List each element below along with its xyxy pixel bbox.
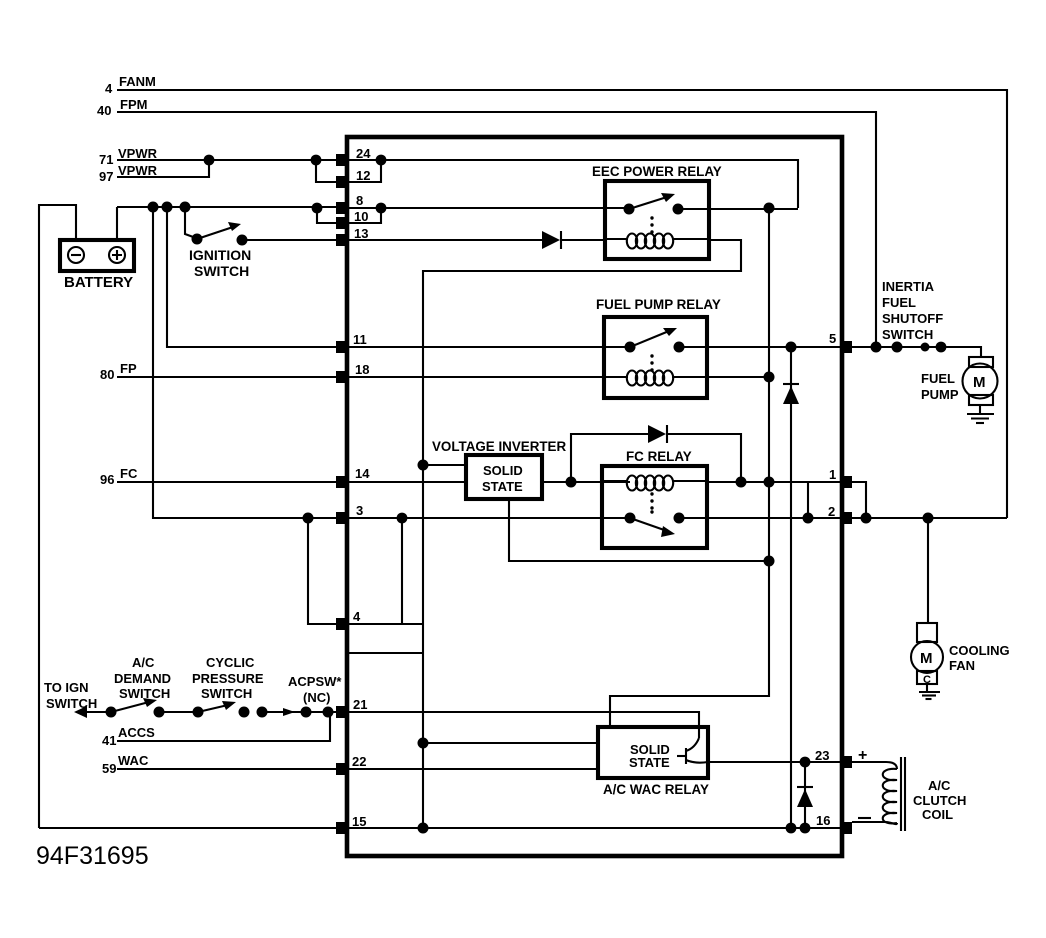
wire battery negative to left edge down to pin 15 row bbox=[39, 205, 76, 828]
svg-text:SWITCH: SWITCH bbox=[194, 263, 249, 279]
junction inverter bottom to VPWR vertical bbox=[764, 556, 775, 567]
svg-text:12: 12 bbox=[356, 168, 370, 183]
wire FC row to pin 14 bbox=[117, 481, 340, 483]
junction battery feed b bbox=[162, 202, 173, 213]
PCM main box bbox=[347, 137, 842, 856]
wire to cyclic pressure switch bbox=[159, 711, 198, 713]
wire diode bypass loop over FC coil bbox=[571, 434, 648, 482]
svg-text:(NC): (NC) bbox=[303, 690, 330, 705]
junction left loop bbox=[803, 513, 814, 524]
svg-text:PUMP: PUMP bbox=[921, 387, 959, 402]
svg-text:SWITCH: SWITCH bbox=[882, 327, 933, 342]
svg-text:FUEL: FUEL bbox=[882, 295, 916, 310]
wire battery vertical to pin 11 row bbox=[167, 207, 340, 347]
svg-text:CLUTCH: CLUTCH bbox=[913, 793, 966, 808]
wire FANM from pin 4 to right edge down to fan row bbox=[117, 90, 1007, 518]
svg-text:CYCLIC: CYCLIC bbox=[206, 655, 255, 670]
wire feed into WAC relay bbox=[423, 742, 598, 744]
junction pin 3 row inside bbox=[397, 513, 408, 524]
node TO IGN SWITCH bbox=[44, 680, 111, 718]
pin 12 terminal bbox=[336, 176, 348, 188]
wire pin 14 row into voltage inverter bbox=[349, 481, 466, 483]
junction diode CR2 bottom bbox=[800, 823, 811, 834]
svg-text:FUEL: FUEL bbox=[921, 371, 955, 386]
A/C demand switch S3 bbox=[106, 655, 172, 718]
svg-text:24: 24 bbox=[356, 146, 371, 161]
pin 24 terminal bbox=[336, 154, 348, 166]
wire pin 5 to fuel pump bbox=[852, 347, 981, 357]
svg-text:M: M bbox=[920, 650, 933, 667]
svg-text:A/C: A/C bbox=[928, 778, 951, 793]
wire pin 4 row to EEC return vertical bbox=[348, 623, 423, 625]
junction CR1 bottom bbox=[786, 823, 797, 834]
svg-text:ACPSW*: ACPSW* bbox=[288, 674, 342, 689]
pin 1 terminal bbox=[840, 476, 852, 488]
svg-text:96: 96 bbox=[100, 472, 114, 487]
diode CR4 on bypass loop bbox=[648, 425, 741, 482]
svg-text:WAC: WAC bbox=[118, 753, 149, 768]
wire pin 22 row into WAC relay bbox=[349, 768, 598, 770]
wire inside: pin 24 row to relay output corner bbox=[349, 160, 798, 208]
wire FC coil return to pin 1 bbox=[707, 481, 852, 483]
wire inverter bottom output bbox=[509, 499, 769, 561]
junction battery feed a bbox=[148, 202, 159, 213]
wire pin 3 to pin 4 link b bbox=[401, 518, 403, 624]
transistor Q1 in WAC relay bbox=[677, 738, 708, 764]
wire inside: pin 13 row to diode bbox=[349, 239, 542, 241]
cyclic pressure switch S4 bbox=[192, 655, 268, 718]
pin 15 terminal bbox=[336, 822, 348, 834]
svg-text:13: 13 bbox=[354, 226, 368, 241]
svg-text:STATE: STATE bbox=[629, 755, 670, 770]
svg-text:22: 22 bbox=[352, 754, 366, 769]
junction pin 24 inside bbox=[376, 155, 387, 166]
wire FP relay output to pin 5 bbox=[679, 346, 840, 348]
svg-text:A/C: A/C bbox=[132, 655, 155, 670]
wire ACCS row up to pin 21 row bbox=[117, 712, 330, 741]
wire ignition switch to pin 13 bbox=[242, 239, 340, 241]
pin 4 terminal bbox=[336, 618, 348, 630]
svg-text:COIL: COIL bbox=[922, 807, 953, 822]
svg-text:EEC POWER RELAY: EEC POWER RELAY bbox=[592, 164, 722, 179]
junction FC coil row a bbox=[736, 477, 747, 488]
svg-text:SOLID: SOLID bbox=[483, 463, 523, 478]
pin 22 terminal bbox=[336, 763, 348, 775]
svg-text:FPM: FPM bbox=[120, 97, 147, 112]
battery B1 bbox=[60, 240, 134, 291]
junction battery feed c bbox=[180, 202, 191, 213]
pin 21 terminal bbox=[336, 706, 348, 718]
voltage inverter U1 bbox=[432, 439, 566, 499]
svg-text:5: 5 bbox=[829, 331, 836, 346]
wire pin 11 row into FP relay contact bbox=[349, 346, 630, 348]
diode CR1 fuel pump feed bbox=[783, 347, 799, 828]
svg-text:11: 11 bbox=[353, 332, 367, 347]
junction pin 3 row outside bbox=[303, 513, 314, 524]
inertia fuel shutoff switch S2 bbox=[882, 279, 946, 353]
junction before pin 8 bbox=[312, 203, 323, 214]
wire pin 3 row to FC relay contact bbox=[349, 517, 630, 519]
wire jog from 71 row down to pin 12 bbox=[316, 160, 340, 182]
wire stub row below pin 4 bbox=[349, 652, 423, 654]
svg-text:COOLING: COOLING bbox=[949, 643, 1010, 658]
svg-text:FP: FP bbox=[120, 361, 137, 376]
svg-text:VPWR: VPWR bbox=[118, 146, 158, 161]
pin 16 terminal bbox=[840, 822, 852, 834]
pin 11 terminal bbox=[336, 341, 348, 353]
svg-text:10: 10 bbox=[354, 209, 368, 224]
junction at pin 24 feed bbox=[311, 155, 322, 166]
svg-text:94F31695: 94F31695 bbox=[36, 842, 149, 870]
wire battery feed row to pin 8 bbox=[117, 206, 340, 208]
A/C WAC relay K4 bbox=[598, 727, 709, 797]
svg-text:FANM: FANM bbox=[119, 74, 156, 89]
wire feed into voltage inverter bbox=[423, 464, 466, 466]
svg-text:16: 16 bbox=[816, 813, 830, 828]
svg-text:FC: FC bbox=[120, 466, 138, 481]
svg-text:15: 15 bbox=[352, 814, 366, 829]
pin 13 terminal bbox=[336, 234, 348, 246]
wire inside: pin 12 loop bbox=[349, 160, 381, 182]
svg-text:71: 71 bbox=[99, 152, 113, 167]
pin 18 terminal bbox=[336, 371, 348, 383]
svg-text:4: 4 bbox=[353, 609, 361, 624]
wire VPWR 97 row joining 71 row bbox=[117, 160, 209, 177]
junction voltage inverter feed bbox=[418, 460, 429, 471]
wire inside: pin 8 row to EEC relay contact bbox=[349, 207, 629, 209]
wire pin 21 row to WAC relay transistor bbox=[349, 712, 699, 738]
junction FP output diode tap bbox=[786, 342, 797, 353]
junction FC coil feed bbox=[566, 477, 577, 488]
wire EEC relay output to VPWR corner bbox=[678, 208, 798, 210]
junction EEC output bbox=[764, 203, 775, 214]
svg-text:FUEL PUMP RELAY: FUEL PUMP RELAY bbox=[596, 297, 721, 312]
wire battery vertical to pin 3 row bbox=[153, 207, 340, 518]
wire pin 1 right loop down to pin 2 row bbox=[852, 482, 866, 518]
ground fuel pump bbox=[967, 405, 994, 423]
pin 10 terminal bbox=[336, 217, 348, 229]
FC relay K3 bbox=[602, 449, 707, 548]
fuel pump relay K2 bbox=[349, 297, 721, 398]
svg-text:40: 40 bbox=[97, 103, 111, 118]
svg-text:BATTERY: BATTERY bbox=[64, 274, 133, 291]
fuel pump motor M1 bbox=[921, 357, 998, 405]
ignition switch S1 bbox=[185, 207, 251, 279]
pin 2 terminal bbox=[840, 512, 852, 524]
diode CR3 on pin 13 row bbox=[542, 231, 605, 249]
svg-text:VPWR: VPWR bbox=[118, 163, 158, 178]
junction ground row bbox=[418, 823, 429, 834]
junction pin 8 inside bbox=[376, 203, 387, 214]
svg-text:59: 59 bbox=[102, 761, 116, 776]
svg-text:18: 18 bbox=[355, 362, 369, 377]
pin 14 terminal bbox=[336, 476, 348, 488]
wire cooling fan drop bbox=[927, 518, 929, 623]
wire FC relay output row to FANM corner bbox=[679, 517, 1007, 519]
wire FP coil return to VPWR vertical bbox=[707, 376, 769, 378]
wire VPWR 71 row to pin 24 bbox=[117, 159, 340, 161]
wire voltage inverter output to FC coil bbox=[542, 481, 630, 483]
wire battery positive up to feed row bbox=[116, 207, 118, 240]
junction diode CR2 top bbox=[800, 757, 811, 768]
svg-text:M: M bbox=[973, 374, 986, 391]
wire FP row to pin 18 bbox=[117, 376, 340, 378]
svg-text:21: 21 bbox=[353, 697, 367, 712]
wire EEC coil return loop bbox=[423, 240, 741, 828]
wire VPWR vertical feed bbox=[610, 208, 769, 727]
svg-text:A/C WAC RELAY: A/C WAC RELAY bbox=[603, 782, 709, 797]
wire WAC output to pin 23 bbox=[708, 761, 840, 763]
svg-text:80: 80 bbox=[100, 367, 114, 382]
pin 5 terminal bbox=[840, 341, 852, 353]
svg-text:4: 4 bbox=[105, 81, 113, 96]
pin 3 terminal bbox=[336, 512, 348, 524]
junction pin 2 row at cooling fan bbox=[923, 513, 934, 524]
wire pin 3 to pin 4 link a bbox=[308, 518, 336, 624]
svg-text:3: 3 bbox=[356, 503, 363, 518]
svg-text:FAN: FAN bbox=[949, 658, 975, 673]
cooling fan motor M2 bbox=[911, 623, 1010, 686]
svg-text:SWITCH: SWITCH bbox=[201, 686, 252, 701]
junction FPM tap bbox=[871, 342, 882, 353]
wire ground row pin 15 to pin 16 bbox=[39, 827, 840, 829]
svg-text:DEMAND: DEMAND bbox=[114, 671, 171, 686]
svg-text:IGNITION: IGNITION bbox=[189, 247, 251, 263]
wire inside: pin 10 loop bbox=[349, 208, 381, 223]
svg-text:FC RELAY: FC RELAY bbox=[626, 449, 692, 464]
svg-text:STATE: STATE bbox=[482, 479, 523, 494]
svg-text:PRESSURE: PRESSURE bbox=[192, 671, 264, 686]
svg-text:1: 1 bbox=[829, 467, 836, 482]
wire jog from feed row to pin 10 bbox=[317, 208, 340, 223]
EEC power relay K1 bbox=[592, 164, 722, 259]
wire pin 1 left loop down to pin 2 row bbox=[807, 482, 809, 518]
junction FC coil row b bbox=[764, 477, 775, 488]
node ACPSW (NC) bbox=[262, 674, 342, 718]
junction WAC feed bbox=[418, 738, 429, 749]
pin 8 terminal bbox=[336, 202, 348, 214]
ground cooling fan bbox=[919, 684, 940, 699]
svg-text:41: 41 bbox=[102, 733, 116, 748]
junction VPWR bbox=[204, 155, 215, 166]
svg-text:SHUTOFF: SHUTOFF bbox=[882, 311, 943, 326]
svg-text:14: 14 bbox=[355, 466, 370, 481]
A/C clutch coil L1 bbox=[852, 747, 966, 831]
svg-text:VOLTAGE INVERTER: VOLTAGE INVERTER bbox=[432, 439, 566, 454]
wire FPM to inertia switch node bbox=[117, 112, 876, 347]
svg-text:SWITCH: SWITCH bbox=[46, 696, 97, 711]
svg-text:23: 23 bbox=[815, 748, 829, 763]
svg-text:2: 2 bbox=[828, 504, 835, 519]
svg-text:97: 97 bbox=[99, 169, 113, 184]
svg-text:ACCS: ACCS bbox=[118, 725, 155, 740]
diode CR2 across clutch coil bbox=[797, 762, 813, 828]
wire WAC row to pin 22 bbox=[117, 768, 340, 770]
svg-text:8: 8 bbox=[356, 193, 363, 208]
svg-text:TO IGN: TO IGN bbox=[44, 680, 89, 695]
junction FP coil return bbox=[764, 372, 775, 383]
pin 23 terminal bbox=[840, 756, 852, 768]
svg-text:INERTIA: INERTIA bbox=[882, 279, 935, 294]
junction right loop bbox=[861, 513, 872, 524]
